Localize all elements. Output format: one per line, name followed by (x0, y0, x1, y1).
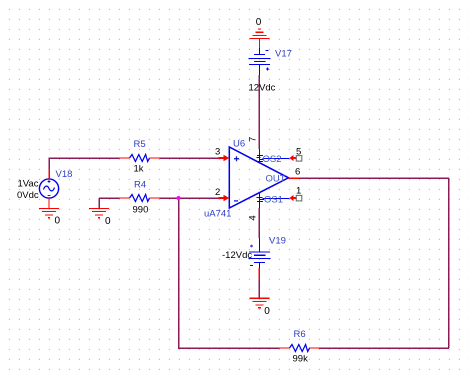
wire R4 to pin2 (160, 197, 220, 199)
wire pin4 to V19 (258, 208, 260, 238)
wire feedback vertical left (178, 198, 180, 348)
svg-text:R6: R6 (294, 329, 306, 340)
op-amp minus mark (234, 200, 238, 202)
OS1 short marker (257, 198, 265, 202)
pin 5 arrow (289, 155, 296, 161)
OS1 pin line (263, 198, 290, 200)
svg-text:R4: R4 (134, 180, 146, 191)
svg-text:0: 0 (264, 306, 270, 317)
svg-text:3: 3 (215, 147, 220, 158)
svg-text:990: 990 (133, 205, 149, 216)
pin 4 line (259, 193, 261, 208)
pin 5 unconnected square (296, 156, 302, 162)
svg-text:1Vac: 1Vac (18, 179, 39, 190)
pin 3 arrow (219, 155, 230, 162)
svg-text:U6: U6 (233, 139, 245, 150)
svg-text:0: 0 (256, 17, 262, 28)
wire V19 to ground (258, 280, 260, 298)
wire R5 to pin3 (160, 157, 220, 159)
svg-text:0: 0 (105, 216, 111, 227)
svg-text:1k: 1k (134, 164, 144, 175)
battery V19 (249, 238, 271, 268)
pin 6 output lead (289, 177, 300, 179)
svg-text:2: 2 (215, 187, 220, 198)
op-amp plus mark (234, 156, 239, 161)
svg-text:0Vdc: 0Vdc (17, 190, 39, 201)
V18 pins (48, 169, 50, 208)
wire right vertical (448, 178, 450, 348)
svg-text:OS2: OS2 (263, 154, 282, 165)
V19 pin lead (258, 268, 260, 280)
wire feedback to R6 (178, 347, 280, 349)
ground below V19 (249, 298, 269, 308)
svg-text:6: 6 (295, 167, 300, 178)
svg-text:OS1: OS1 (264, 195, 283, 206)
svg-text:1: 1 (296, 186, 301, 197)
resistor R5 (120, 155, 160, 162)
junction node at feedback/R4 (177, 196, 181, 200)
wire ground2 vertical (98, 198, 100, 208)
ground at R4 input (89, 208, 109, 217)
svg-text:uA741: uA741 (204, 209, 231, 220)
svg-text:5: 5 (296, 147, 301, 158)
svg-text:4: 4 (248, 215, 259, 220)
wire R6 to right (319, 347, 449, 349)
svg-text:7: 7 (248, 137, 259, 142)
ground under V18 (39, 208, 59, 217)
op-amp U6 triangle (229, 147, 288, 208)
svg-text:V18: V18 (56, 169, 73, 180)
svg-text:-12Vdc: -12Vdc (222, 250, 252, 261)
svg-text:V19: V19 (269, 236, 286, 247)
svg-text:V17: V17 (275, 49, 292, 60)
resistor R6 (280, 345, 320, 352)
wire top horizontal to R5 (48, 157, 119, 159)
svg-text:12Vdc: 12Vdc (249, 83, 276, 94)
pin 1 unconnected square (296, 195, 302, 201)
inverted ground above V17 (249, 29, 269, 48)
svg-text:99k: 99k (293, 354, 309, 365)
svg-text:0: 0 (55, 216, 61, 227)
wire V18 top vertical (48, 158, 50, 169)
voltage source V18 (39, 179, 58, 198)
resistor R4 (120, 195, 160, 202)
svg-text:OUT: OUT (266, 174, 286, 185)
pin 1 arrow (289, 195, 296, 201)
pin 2 arrow (219, 195, 230, 202)
wire V17 to pin7 (258, 75, 260, 149)
battery V17 (249, 48, 271, 75)
OS2 short marker (257, 156, 264, 162)
wire output horizontal (299, 177, 449, 179)
OS2 pin line (263, 158, 290, 160)
svg-text:R5: R5 (134, 139, 146, 150)
pin 7 line (259, 149, 261, 163)
wire ground2 to R4 (99, 197, 120, 199)
